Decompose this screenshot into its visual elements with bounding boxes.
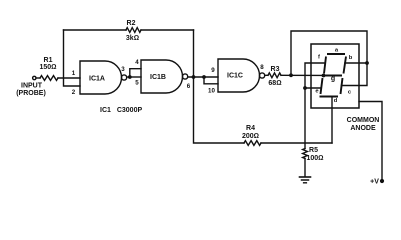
svg-text:8: 8 — [260, 64, 264, 71]
svg-text:9: 9 — [211, 67, 215, 74]
svg-text:5: 5 — [135, 80, 139, 87]
svg-text:IC1A: IC1A — [89, 76, 105, 83]
svg-text:R1: R1 — [44, 57, 53, 64]
svg-text:68Ω: 68Ω — [268, 80, 281, 87]
svg-text:R3: R3 — [271, 66, 280, 73]
svg-text:IC1: IC1 — [100, 107, 111, 114]
svg-text:f: f — [318, 55, 320, 61]
svg-text:COMMON: COMMON — [347, 117, 380, 124]
svg-text:100Ω: 100Ω — [306, 155, 323, 162]
svg-text:1: 1 — [72, 70, 76, 77]
svg-text:R4: R4 — [246, 125, 255, 132]
svg-text:3kΩ: 3kΩ — [126, 35, 139, 42]
svg-text:2: 2 — [72, 89, 76, 96]
svg-text:4: 4 — [135, 59, 139, 66]
svg-text:R5: R5 — [309, 147, 318, 154]
svg-text:IC1C: IC1C — [227, 73, 243, 80]
svg-text:3: 3 — [121, 66, 125, 73]
svg-text:d: d — [334, 98, 338, 104]
svg-text:(PROBE): (PROBE) — [16, 90, 46, 97]
svg-text:INPUT: INPUT — [21, 83, 43, 90]
svg-text:IC1B: IC1B — [150, 74, 166, 81]
svg-text:g: g — [331, 76, 335, 83]
svg-text:150Ω: 150Ω — [39, 64, 56, 71]
svg-text:C3000P: C3000P — [117, 107, 143, 114]
svg-text:6: 6 — [187, 83, 191, 90]
svg-text:R2: R2 — [127, 20, 136, 27]
svg-text:+V: +V — [370, 179, 379, 186]
svg-text:200Ω: 200Ω — [242, 133, 259, 140]
svg-text:ANODE: ANODE — [350, 125, 376, 132]
svg-text:10: 10 — [208, 88, 215, 95]
svg-text:b: b — [349, 55, 353, 61]
